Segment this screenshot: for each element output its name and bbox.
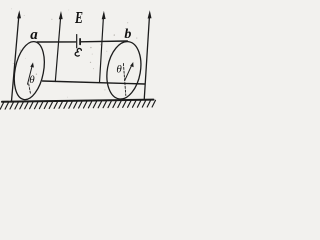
field arrow B4 (right vertical line with up arrowhead) — [144, 10, 151, 100]
battery short plate — [79, 39, 81, 45]
ground hatching — [0, 100, 155, 109]
field arrow B3 — [100, 11, 106, 83]
cylinder b (right ellipse) — [103, 39, 146, 102]
left needle with arrowhead — [28, 62, 34, 84]
svg-text:θ: θ — [29, 74, 35, 86]
lower wire (axle rod) — [42, 81, 144, 84]
svg-text:b: b — [124, 27, 131, 42]
right needle with arrowhead — [125, 62, 134, 80]
field arrow B2 — [55, 11, 62, 82]
cylinder a (left ellipse) — [10, 39, 49, 102]
field arrow B1 (left vertical line with up arrowhead) — [12, 10, 22, 101]
wire a-to-battery (top) — [37, 41, 75, 43]
svg-text:a: a — [30, 27, 38, 43]
svg-text:θ: θ — [116, 63, 122, 75]
wire battery-to-b (top) — [80, 40, 127, 43]
battery long plate — [76, 35, 78, 48]
ground line — [2, 100, 154, 102]
left dial dashed vertical (zero line) — [29, 84, 31, 93]
right dial dashed vertical (zero line) — [123, 64, 125, 96]
svg-text:E: E — [74, 8, 83, 27]
label script-E (EMF value) — [75, 48, 82, 57]
